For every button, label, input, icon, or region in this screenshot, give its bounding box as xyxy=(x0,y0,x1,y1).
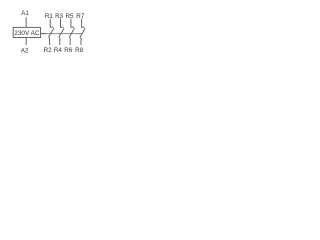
svg-text:R5: R5 xyxy=(65,13,74,20)
svg-text:R1: R1 xyxy=(45,13,54,20)
svg-text:A1: A1 xyxy=(21,10,29,17)
svg-text:R4: R4 xyxy=(54,47,63,54)
svg-text:R3: R3 xyxy=(55,13,64,20)
svg-text:230V AC: 230V AC xyxy=(14,30,40,37)
svg-text:A2: A2 xyxy=(21,47,29,54)
svg-text:R7: R7 xyxy=(76,13,85,20)
svg-text:R6: R6 xyxy=(64,47,73,54)
svg-text:R2: R2 xyxy=(44,47,53,54)
svg-text:R8: R8 xyxy=(75,47,84,54)
